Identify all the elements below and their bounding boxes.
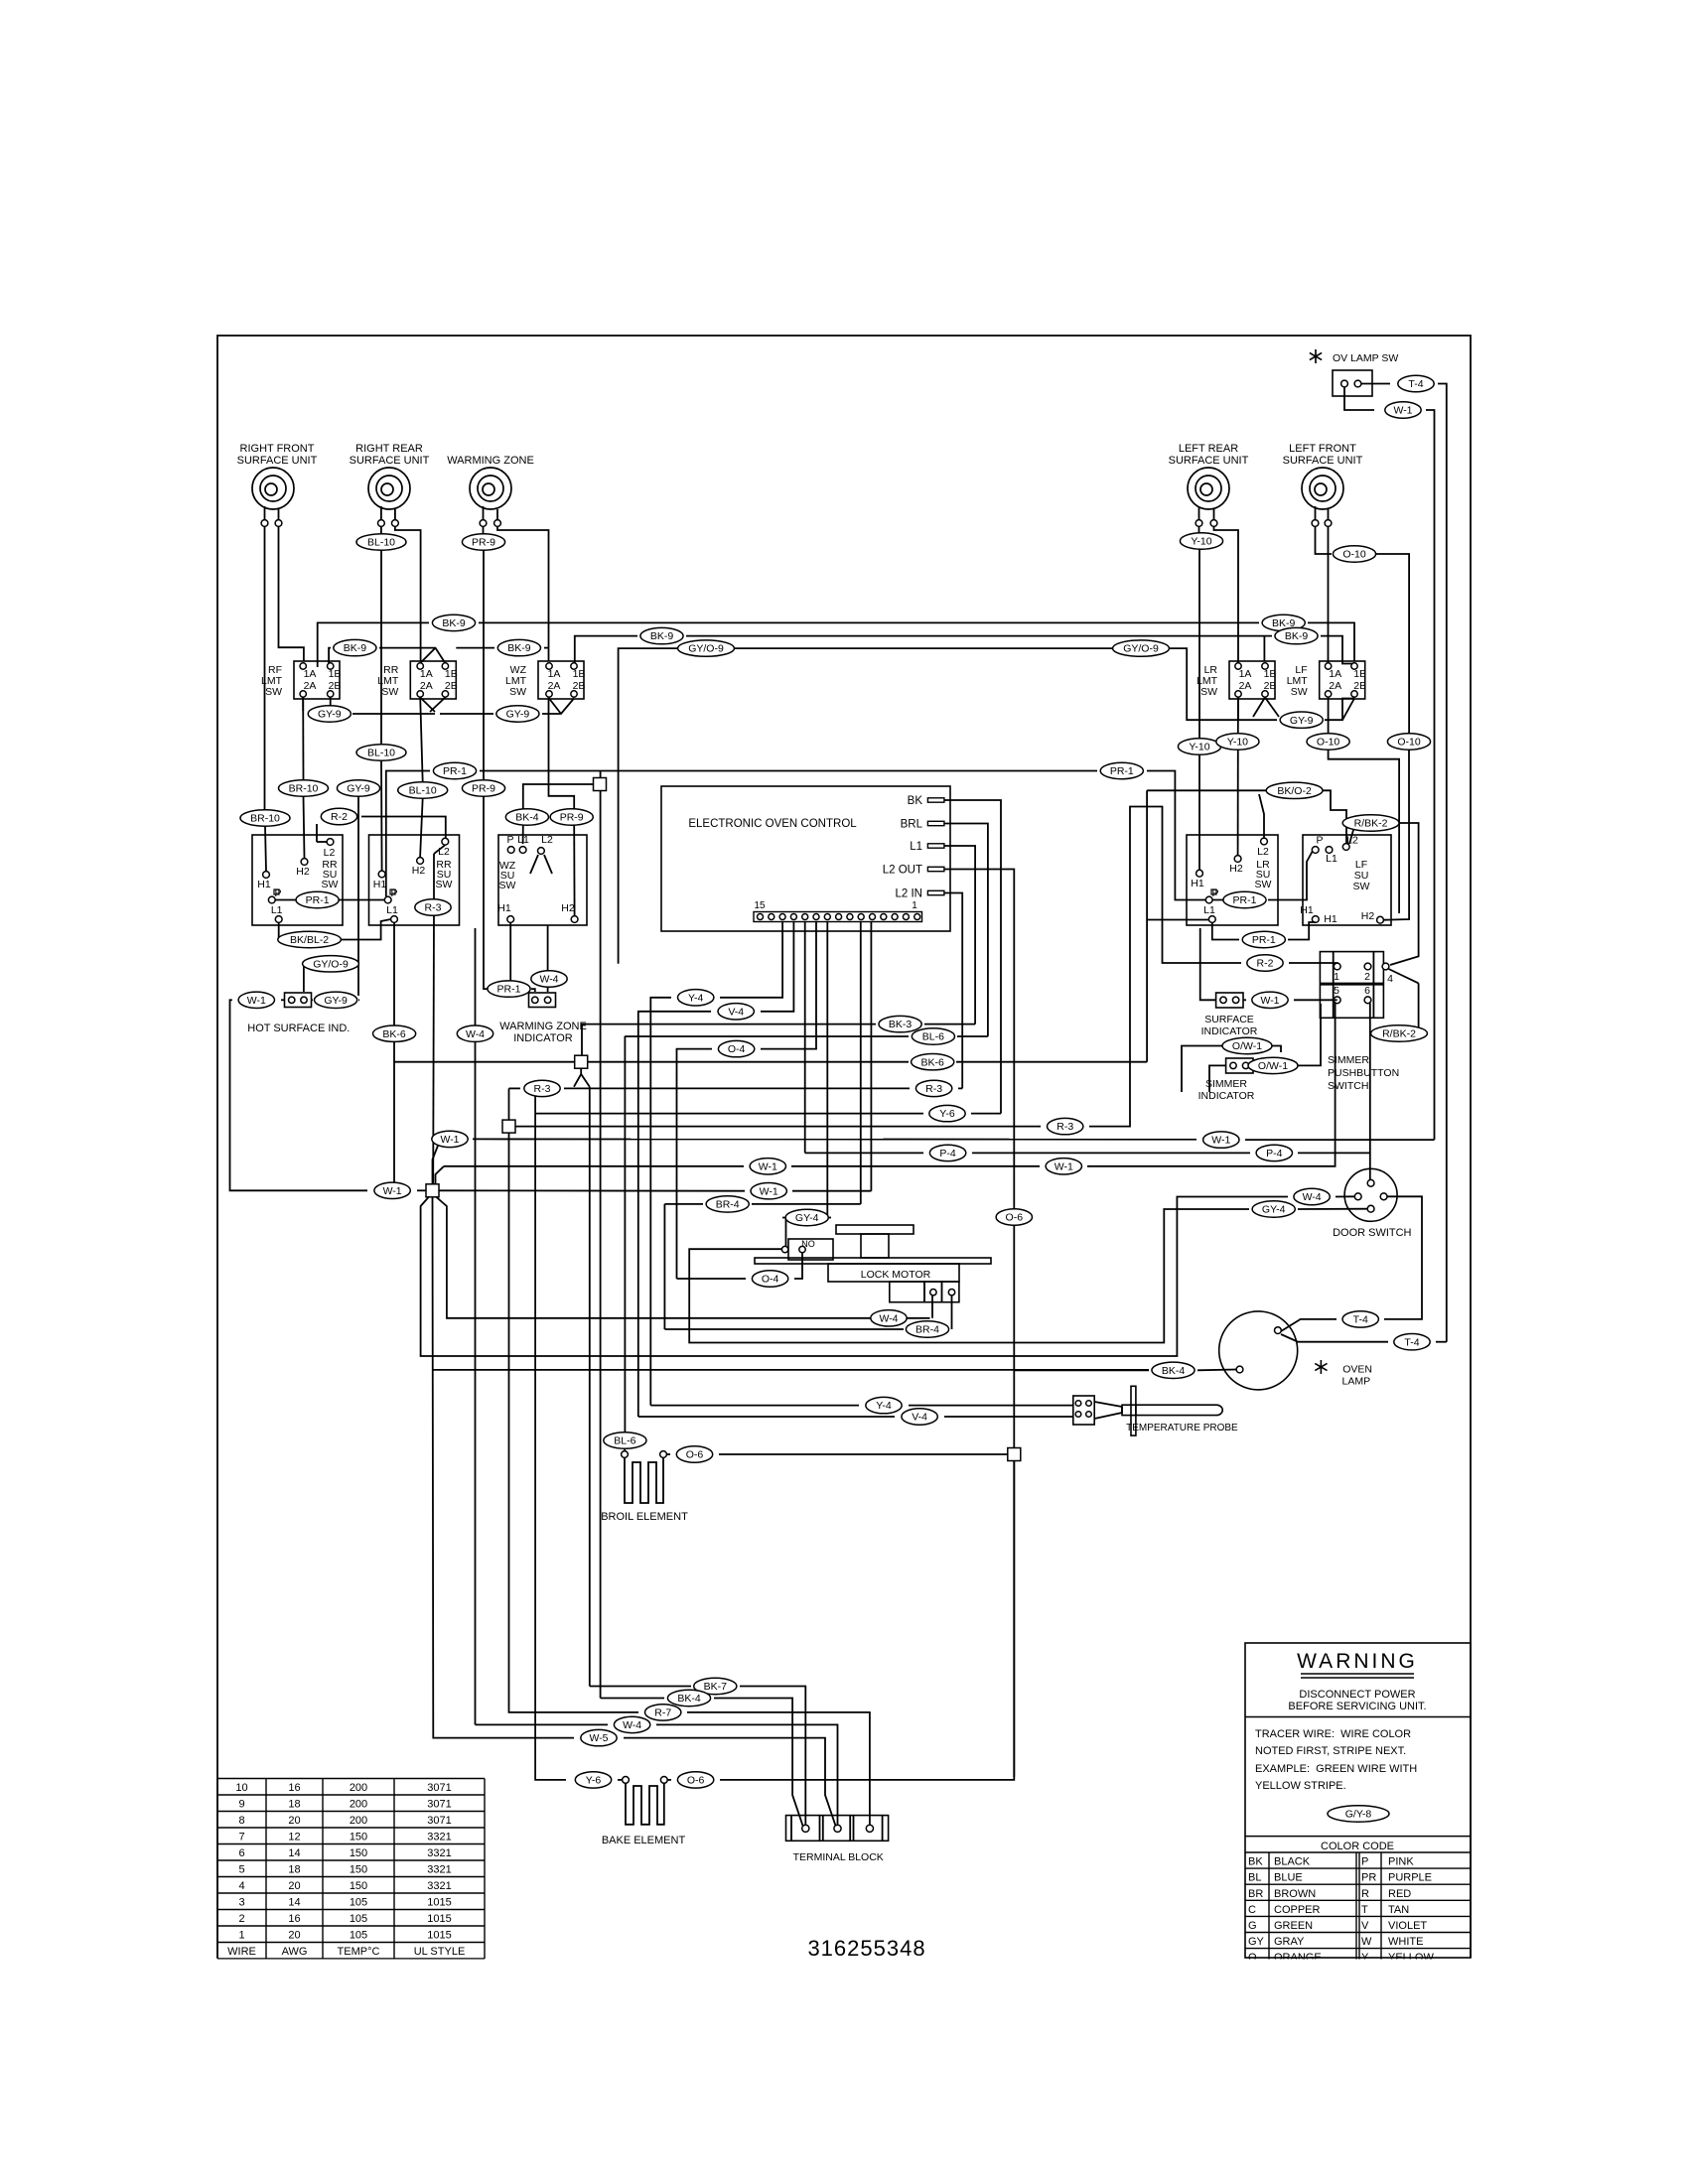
svg-text:HOT SURFACE IND.: HOT SURFACE IND. xyxy=(247,1023,350,1034)
svg-text:RED: RED xyxy=(1388,1888,1411,1900)
svg-text:R: R xyxy=(1361,1888,1369,1900)
svg-text:14: 14 xyxy=(288,1847,300,1859)
svg-text:3: 3 xyxy=(238,1897,244,1909)
wire label BK-4 xyxy=(1152,1362,1195,1378)
svg-text:R-3: R-3 xyxy=(925,1083,942,1095)
switch OV LAMP SW xyxy=(1310,353,1322,360)
wire BK-6 bus xyxy=(393,923,395,1026)
svg-text:BK-4: BK-4 xyxy=(677,1693,701,1705)
svg-text:BK: BK xyxy=(1248,1856,1263,1868)
svg-text:TERMINAL BLOCK: TERMINAL BLOCK xyxy=(793,1851,884,1863)
svg-text:10: 10 xyxy=(235,1782,247,1794)
svg-text:INDICATOR: INDICATOR xyxy=(1201,1025,1258,1037)
svg-text:2B: 2B xyxy=(445,680,458,692)
svg-text:BL: BL xyxy=(1248,1872,1261,1884)
svg-text:20: 20 xyxy=(288,1930,300,1942)
wire label Y-10 xyxy=(1216,734,1259,750)
switch WZ LMT SW xyxy=(538,661,584,699)
svg-text:H2: H2 xyxy=(1361,910,1375,922)
switch RR LMT SW xyxy=(410,661,456,699)
wire Y-6 to bake element xyxy=(618,1779,623,1781)
wire label O/W-1 xyxy=(1222,1037,1272,1053)
svg-text:1A: 1A xyxy=(1239,668,1252,680)
wire BK-9 bus second xyxy=(329,648,331,663)
wire Y-4 from strip to temp probe net xyxy=(720,922,782,998)
svg-text:UL STYLE: UL STYLE xyxy=(414,1946,466,1958)
wire LF LMT 2A down xyxy=(1328,697,1330,735)
wire RF LMT 2A down via BR-10 xyxy=(302,698,304,781)
wire WZ coil right to WZ LMT 1A xyxy=(497,527,549,661)
wire BK-9 drop to LR LMT 1B xyxy=(1263,636,1265,661)
svg-text:AWG: AWG xyxy=(282,1946,308,1958)
svg-text:H2: H2 xyxy=(1229,863,1243,875)
wire label PR-9 xyxy=(462,780,504,796)
wire label O-4 xyxy=(718,1040,754,1056)
wire label GY-4 xyxy=(1252,1201,1295,1217)
svg-text:H1: H1 xyxy=(497,902,511,914)
wire PR-1 bus across page xyxy=(386,771,430,897)
lock motor NO switch xyxy=(788,1239,833,1260)
wire strip descend GY-4 xyxy=(826,922,828,1218)
svg-text:BR: BR xyxy=(1248,1888,1263,1900)
svg-text:BRL: BRL xyxy=(901,819,923,831)
svg-text:BK-9: BK-9 xyxy=(1285,630,1309,642)
indicator HOT SURFACE IND. xyxy=(285,993,312,1008)
svg-text:2: 2 xyxy=(238,1913,244,1925)
wire R-3 from box2 L2 down xyxy=(434,845,445,854)
svg-text:3321: 3321 xyxy=(427,1880,451,1892)
wire label R-3 xyxy=(915,1080,951,1096)
wire label T-4 xyxy=(1398,375,1434,391)
svg-text:H1: H1 xyxy=(1324,913,1337,925)
switch RR SU SW box2 xyxy=(369,835,460,925)
svg-text:2B: 2B xyxy=(1353,680,1366,692)
svg-text:105: 105 xyxy=(350,1930,367,1942)
svg-text:NOTED FIRST, STRIPE NEXT.: NOTED FIRST, STRIPE NEXT. xyxy=(1255,1745,1406,1757)
wire label T-4 xyxy=(1394,1334,1430,1350)
svg-text:316255348: 316255348 xyxy=(807,1936,925,1961)
triangle junction below square xyxy=(580,1068,582,1074)
svg-text:LOCK MOTOR: LOCK MOTOR xyxy=(861,1269,931,1281)
heating element BROIL ELEMENT xyxy=(622,1451,629,1458)
svg-text:H1: H1 xyxy=(257,879,271,890)
wire BK-4 to oven lamp xyxy=(1014,1369,1149,1371)
wire label BL-6 xyxy=(912,1028,954,1044)
svg-text:W-4: W-4 xyxy=(879,1312,898,1324)
svg-text:W-1: W-1 xyxy=(1393,405,1412,417)
svg-text:EXAMPLE: GREEN WIRE WITH: EXAMPLE: GREEN WIRE WITH xyxy=(1255,1763,1417,1775)
svg-text:R-2: R-2 xyxy=(1257,958,1274,970)
svg-text:WARNING: WARNING xyxy=(1297,1650,1418,1673)
warning box xyxy=(1245,1643,1471,1958)
wire L2 IN stub right xyxy=(944,893,962,1089)
wire label W-4 xyxy=(614,1716,649,1732)
svg-text:BK/BL-2: BK/BL-2 xyxy=(290,934,329,946)
wire label O-4 xyxy=(752,1271,787,1287)
wire W-1 from hot surface indicator xyxy=(281,999,285,1001)
wire label Y-6 xyxy=(929,1105,965,1121)
svg-text:BL-6: BL-6 xyxy=(922,1031,944,1043)
svg-text:H2: H2 xyxy=(561,902,575,914)
svg-text:1B: 1B xyxy=(1353,668,1366,680)
wire label BK-9 xyxy=(334,639,376,655)
svg-text:BL-6: BL-6 xyxy=(614,1435,635,1447)
motor LOCK MOTOR xyxy=(836,1225,914,1234)
wire label BK-6 xyxy=(373,1025,416,1041)
wire label GY-9 xyxy=(337,780,379,796)
wire label BK-9 xyxy=(497,639,540,655)
wire label BR-4 xyxy=(706,1196,749,1212)
svg-text:SURFACE: SURFACE xyxy=(1204,1014,1254,1025)
wire BR-4 from lock motor xyxy=(951,1296,953,1330)
svg-text:Y-10: Y-10 xyxy=(1227,737,1248,749)
svg-text:RIGHT FRONT: RIGHT FRONT xyxy=(240,443,315,455)
wire label BK-9 xyxy=(432,614,475,630)
svg-text:H2: H2 xyxy=(412,865,426,877)
svg-text:GY-9: GY-9 xyxy=(324,995,348,1007)
junction square BK-4 net xyxy=(600,771,602,1699)
svg-text:SW: SW xyxy=(509,686,526,698)
svg-text:150: 150 xyxy=(350,1880,367,1892)
svg-text:Y-4: Y-4 xyxy=(876,1400,892,1412)
svg-text:9: 9 xyxy=(238,1799,244,1811)
svg-text:DOOR SWITCH: DOOR SWITCH xyxy=(1333,1227,1411,1239)
svg-text:PR-1: PR-1 xyxy=(1110,765,1134,777)
wire label BK-4 xyxy=(667,1690,710,1706)
svg-text:O-10: O-10 xyxy=(1397,737,1421,749)
connector TERMINAL BLOCK xyxy=(786,1816,889,1842)
svg-text:C: C xyxy=(1248,1904,1256,1916)
svg-text:4: 4 xyxy=(238,1880,244,1892)
wire BK-9 bus upper xyxy=(318,622,429,667)
svg-text:O/W-1: O/W-1 xyxy=(1258,1060,1288,1072)
wire V-4 to temperature probe xyxy=(638,1416,895,1418)
svg-text:INDICATOR: INDICATOR xyxy=(513,1032,573,1044)
wire T-4 from door switch to oven lamp xyxy=(1384,1196,1422,1319)
svg-text:V-4: V-4 xyxy=(912,1412,927,1424)
wire label GY/O-9 xyxy=(303,956,359,972)
wire W-1 from OV LAMP SW xyxy=(1344,387,1374,410)
wire GY-4 oval to door switch xyxy=(1298,1208,1367,1210)
wire label BK/O-2 xyxy=(1266,782,1323,798)
wire GY-9 vertical right of RF xyxy=(357,780,359,996)
wire label O-6 xyxy=(677,1772,713,1788)
wire label BR-10 xyxy=(240,810,290,826)
wire label T-4 xyxy=(1342,1311,1378,1327)
wire simmer pin 4 fork xyxy=(1389,969,1419,983)
wire BK-4 from junction to WZ SU L1 xyxy=(523,784,594,809)
svg-text:H1: H1 xyxy=(1300,904,1314,916)
wire label PR-9 xyxy=(462,534,504,550)
wire T-4 from oven lamp to OV LAMP SW xyxy=(1281,1334,1388,1342)
svg-text:GY/O-9: GY/O-9 xyxy=(688,643,724,655)
wire label BK-9 xyxy=(640,627,683,643)
svg-text:1A: 1A xyxy=(1329,668,1341,680)
wire GY-9 bus left xyxy=(302,698,304,712)
switch LR LMT SW xyxy=(1229,661,1275,699)
wire LR coil right to LR LMT 1A xyxy=(1214,527,1239,664)
wire RR coil right to RR LMT 1A xyxy=(395,527,421,661)
wire P-4 long bus xyxy=(805,1152,923,1154)
wire R-2 to simmer pin 1 xyxy=(1289,962,1337,964)
wire Y-6 drop to bake element xyxy=(535,1114,566,1780)
svg-text:PR: PR xyxy=(1361,1872,1376,1884)
wire label W-4 xyxy=(457,1025,492,1041)
svg-text:150: 150 xyxy=(350,1864,367,1876)
svg-text:4: 4 xyxy=(1387,973,1393,985)
wire label W-4 xyxy=(1294,1188,1330,1204)
wire strip descend P-4 xyxy=(804,922,806,1154)
wire label R-3 xyxy=(415,899,451,915)
wire label O-10 xyxy=(1387,734,1430,750)
svg-text:GREEN: GREEN xyxy=(1274,1920,1313,1932)
svg-text:W: W xyxy=(1361,1936,1372,1948)
junction square O-6 xyxy=(1008,1448,1021,1461)
wire label W-5 xyxy=(581,1729,617,1745)
svg-text:R/BK-2: R/BK-2 xyxy=(1354,818,1388,830)
svg-text:COPPER: COPPER xyxy=(1274,1904,1321,1916)
svg-text:L1: L1 xyxy=(517,834,529,846)
svg-text:W-4: W-4 xyxy=(1303,1191,1322,1203)
svg-text:TRACER WIRE: WIRE COLOR: TRACER WIRE: WIRE COLOR xyxy=(1255,1728,1411,1740)
svg-text:WIRE: WIRE xyxy=(227,1946,256,1958)
wire W-4 from lock motor xyxy=(931,1296,933,1318)
switch RR SU SW box1 xyxy=(252,835,343,925)
sensor TEMPERATURE PROBE xyxy=(1073,1396,1094,1425)
svg-text:OVEN: OVEN xyxy=(1342,1364,1372,1376)
svg-text:P: P xyxy=(1316,835,1323,847)
svg-text:L1: L1 xyxy=(1203,904,1215,916)
svg-text:Y-4: Y-4 xyxy=(688,992,704,1004)
wire label R/BK-2 xyxy=(1342,815,1399,831)
wire LR coil left to LR SU H1 via Y-10 ovals xyxy=(1198,527,1200,534)
svg-text:105: 105 xyxy=(350,1897,367,1909)
wire label W-1 xyxy=(1252,992,1288,1008)
wire from junction down-right to W-4 lock xyxy=(436,1197,930,1318)
wire label W-1 xyxy=(1385,402,1421,418)
svg-text:2A: 2A xyxy=(1239,680,1252,692)
wire label GY-9 xyxy=(1280,712,1323,728)
wire label PR-1 xyxy=(488,981,530,997)
svg-text:PR-1: PR-1 xyxy=(306,894,330,906)
svg-text:8: 8 xyxy=(238,1815,244,1827)
wire label P-4 xyxy=(1256,1145,1292,1160)
svg-text:1: 1 xyxy=(238,1930,244,1942)
wire WZ coil left via PR-9 ovals xyxy=(483,527,485,535)
svg-text:L2 OUT: L2 OUT xyxy=(883,865,922,877)
wire RF coil left to H1 via BR-10 xyxy=(264,527,266,811)
svg-text:P: P xyxy=(1361,1856,1368,1868)
wire W-1 surface indicator to simmer pin 5 xyxy=(1243,999,1246,1001)
wire label R-3 xyxy=(524,1080,560,1096)
wire label BL-10 xyxy=(398,782,448,798)
wire W-4 oval at door switch xyxy=(1336,1195,1354,1197)
svg-text:SW: SW xyxy=(265,686,282,698)
wire label BK-6 xyxy=(912,1054,954,1070)
svg-text:14: 14 xyxy=(288,1897,300,1909)
wire label O-6 xyxy=(676,1446,712,1462)
wire label P-4 xyxy=(929,1145,965,1160)
wire BK stub right xyxy=(944,800,1001,1114)
svg-text:BK-6: BK-6 xyxy=(921,1056,945,1068)
switch WZ SU SW xyxy=(498,835,587,925)
svg-text:BROWN: BROWN xyxy=(1274,1888,1316,1900)
wire down to BK-7 bottom xyxy=(589,1087,591,1687)
controller ELECTRONIC OVEN CONTROL xyxy=(661,786,950,931)
switch DOOR SWITCH xyxy=(1344,1168,1397,1221)
wire WZ L2 switch arm xyxy=(530,855,538,874)
wire P-4 vertical simmer pin6 to door switch xyxy=(1369,1004,1371,1180)
wire W-4 to terminal block xyxy=(475,928,477,1724)
svg-text:SW: SW xyxy=(1353,881,1370,892)
svg-text:BAKE ELEMENT: BAKE ELEMENT xyxy=(602,1835,686,1846)
wire O-6 from broil element xyxy=(666,1453,670,1455)
svg-text:200: 200 xyxy=(350,1799,367,1811)
svg-text:2A: 2A xyxy=(420,680,433,692)
svg-text:V-4: V-4 xyxy=(728,1006,744,1018)
wire label R-2 xyxy=(321,808,356,824)
wire R-3 long bus xyxy=(515,1126,1041,1128)
wire label W-1 xyxy=(1203,1132,1239,1148)
svg-text:SURFACE UNIT: SURFACE UNIT xyxy=(1283,455,1363,467)
svg-text:TEMPERATURE PROBE: TEMPERATURE PROBE xyxy=(1126,1423,1238,1433)
wire BK/BL-2 from box1 L1 to box2 L1 xyxy=(279,923,286,940)
wire PR-1 lower LR xyxy=(1212,923,1239,940)
svg-text:T-4: T-4 xyxy=(1353,1314,1368,1326)
svg-text:BK-6: BK-6 xyxy=(382,1028,406,1040)
svg-text:L2: L2 xyxy=(438,846,450,858)
wire label BR-10 xyxy=(279,780,329,796)
svg-text:6: 6 xyxy=(238,1847,244,1859)
svg-text:SWITCH: SWITCH xyxy=(1328,1080,1368,1092)
svg-text:BK-9: BK-9 xyxy=(442,617,466,629)
wire label BK-4 xyxy=(505,809,548,825)
wire V-4 from strip xyxy=(761,922,793,1012)
wire label W-1 xyxy=(750,1159,785,1174)
wire gauge table xyxy=(217,1778,485,1780)
wire O-4 to lock motor switch xyxy=(677,1278,747,1280)
svg-text:20: 20 xyxy=(288,1880,300,1892)
svg-text:GY-9: GY-9 xyxy=(318,709,342,721)
svg-text:BK-4: BK-4 xyxy=(1162,1365,1186,1377)
wire GY-4 to lock motor switch xyxy=(782,1218,786,1247)
wire GY/O-9 bus xyxy=(619,648,683,964)
svg-text:O-6: O-6 xyxy=(1006,1212,1024,1224)
svg-text:P: P xyxy=(274,887,281,899)
svg-text:2: 2 xyxy=(1364,971,1370,983)
svg-text:BK: BK xyxy=(908,795,923,807)
wire label PR-1 xyxy=(296,891,339,907)
wire R/BK-2 lower xyxy=(1370,1032,1376,1034)
wire strip descend W-1 xyxy=(870,922,872,1191)
svg-text:PINK: PINK xyxy=(1388,1856,1414,1868)
svg-text:SW: SW xyxy=(1255,879,1272,890)
wire label R-3 xyxy=(1048,1118,1083,1134)
svg-text:PUSHBUTTON: PUSHBUTTON xyxy=(1328,1067,1399,1079)
svg-text:W-1: W-1 xyxy=(1211,1135,1230,1147)
svg-text:6: 6 xyxy=(1364,985,1370,997)
wire label BK-9 xyxy=(1262,614,1305,630)
svg-text:SW: SW xyxy=(436,879,453,890)
svg-text:WARMING ZONE: WARMING ZONE xyxy=(499,1021,587,1032)
svg-text:BK-9: BK-9 xyxy=(344,642,367,654)
svg-text:LEFT REAR: LEFT REAR xyxy=(1179,443,1238,455)
svg-text:Y-6: Y-6 xyxy=(586,1775,602,1787)
svg-text:P: P xyxy=(1211,887,1218,899)
wire BL-6 drop to broil element xyxy=(624,1036,626,1433)
wire surface indicator left lead xyxy=(1200,928,1216,1000)
svg-text:150: 150 xyxy=(350,1847,367,1859)
svg-text:BK/O-2: BK/O-2 xyxy=(1277,785,1312,797)
svg-text:BR-10: BR-10 xyxy=(250,813,280,825)
svg-text:7: 7 xyxy=(238,1832,244,1843)
svg-text:GY-9: GY-9 xyxy=(506,709,530,721)
wire O-4 from strip to lock motor xyxy=(761,922,816,1049)
wire label GY-9 xyxy=(315,992,357,1008)
wire label W-1 xyxy=(238,992,274,1008)
wire R-3 drop to junction square xyxy=(508,1088,510,1120)
wire from junction straight down to W-5 xyxy=(433,1197,575,1738)
color code table xyxy=(1245,1836,1471,1838)
svg-text:W-1: W-1 xyxy=(760,1185,778,1197)
svg-text:O-6: O-6 xyxy=(686,1449,704,1461)
svg-text:BL-10: BL-10 xyxy=(409,785,437,797)
svg-text:18: 18 xyxy=(288,1799,300,1811)
wire W-1 upper long bus xyxy=(473,1138,1196,1140)
svg-text:T-4: T-4 xyxy=(1408,378,1423,390)
svg-text:SIMMER: SIMMER xyxy=(1328,1054,1369,1066)
svg-text:W-1: W-1 xyxy=(759,1160,777,1172)
wire label BK-3 xyxy=(879,1016,921,1031)
svg-text:BROIL ELEMENT: BROIL ELEMENT xyxy=(601,1511,688,1523)
svg-text:R-3: R-3 xyxy=(1056,1121,1073,1133)
svg-text:GY-9: GY-9 xyxy=(1290,715,1314,727)
svg-text:SW: SW xyxy=(499,880,516,891)
wire label Y-10 xyxy=(1178,739,1220,754)
wire BR-4 bus xyxy=(664,1203,703,1205)
svg-text:O-10: O-10 xyxy=(1342,549,1366,561)
wire BK-7 to terminal block xyxy=(590,1686,691,1688)
switch RF LMT SW xyxy=(294,661,340,699)
wire label Y-10 xyxy=(1180,533,1222,549)
svg-text:BK-4: BK-4 xyxy=(515,812,539,824)
wire BK/O-2 drop to LR SU L1 xyxy=(1146,790,1148,1061)
indicator WARMING ZONE INDICATOR xyxy=(529,993,556,1008)
wire label W-1 xyxy=(432,1131,468,1147)
svg-text:BK-3: BK-3 xyxy=(889,1019,913,1030)
wire R-2 between surface switch L2 terminals xyxy=(316,824,318,842)
svg-text:W-4: W-4 xyxy=(539,974,558,986)
wire L2 OUT stub right xyxy=(944,870,1014,1778)
wire LF LMT 2B diagonal xyxy=(1342,699,1354,721)
wire label G/Y-8 xyxy=(1328,1806,1389,1822)
lamp OVEN LAMP xyxy=(1219,1311,1298,1390)
wire GY-4 link NO pin to door switch xyxy=(689,1209,1249,1343)
svg-text:2A: 2A xyxy=(304,680,317,692)
wire PR-1 to warming zone indicator xyxy=(487,923,510,990)
svg-text:200: 200 xyxy=(350,1782,367,1794)
svg-text:BR-4: BR-4 xyxy=(716,1199,740,1211)
junction square on BK-6 bus xyxy=(575,1055,588,1068)
wire crossing diagonal at RR LMT xyxy=(420,648,435,663)
svg-text:R-3: R-3 xyxy=(425,902,442,914)
svg-text:1A: 1A xyxy=(420,668,433,680)
wire label R-7 xyxy=(645,1705,681,1720)
svg-text:W-4: W-4 xyxy=(623,1719,641,1731)
svg-text:5: 5 xyxy=(238,1864,244,1876)
svg-text:BLUE: BLUE xyxy=(1274,1872,1303,1884)
wire T-4 from OV LAMP SW xyxy=(1361,383,1390,385)
